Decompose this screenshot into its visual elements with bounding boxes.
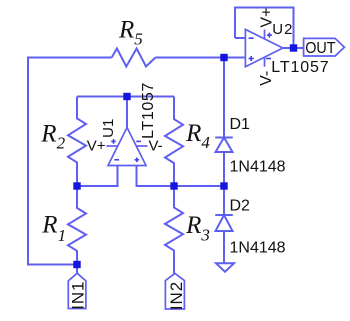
op-amp U1 V+ stub (107, 145, 118, 147)
svg-text:R1: R1 (41, 212, 66, 246)
wire U1 output (126, 97, 128, 128)
wire top node to D1 (223, 58, 225, 138)
node U2 output junction (290, 44, 297, 51)
svg-text:IN1: IN1 (68, 281, 87, 310)
diode D1 (215, 138, 233, 187)
svg-text:R5: R5 (118, 16, 143, 48)
U1 plus input marker (135, 158, 140, 163)
svg-text:R2: R2 (40, 121, 65, 153)
svg-text:V+: V+ (87, 138, 106, 155)
pin markers U1 (111, 33, 272, 163)
diode D2 (215, 186, 233, 263)
svg-text:LT1057: LT1057 (271, 59, 329, 76)
svg-text:R3: R3 (185, 212, 210, 244)
node D1/D2 junction (220, 182, 227, 189)
node R4/R3/U1+ junction (170, 182, 177, 189)
flag OUT (304, 38, 345, 56)
U2 V+ plus marker (267, 33, 272, 38)
op-amp U2 V+ stub (264, 30, 266, 39)
U2 plus input marker (249, 56, 254, 61)
resistor R5 (112, 49, 156, 67)
U2 minus input marker (249, 37, 254, 39)
op-amp U1 V- stub (137, 145, 148, 147)
svg-text:V+: V+ (258, 8, 275, 28)
svg-text:1N4148: 1N4148 (230, 159, 286, 176)
op-amp U2 inverting input stub (235, 37, 245, 39)
wire mid rail left (77, 166, 118, 187)
op-amp U2 V- stub (264, 57, 266, 66)
svg-text:V-: V- (149, 138, 163, 155)
svg-text:U1: U1 (100, 119, 117, 138)
U1 V- minus marker (136, 140, 141, 142)
flag IN1 (68, 273, 86, 308)
svg-text:IN2: IN2 (167, 281, 186, 310)
wire IN1 stub (76, 265, 78, 274)
svg-text:D2: D2 (230, 197, 251, 214)
svg-text:R4: R4 (185, 120, 210, 152)
svg-text:OUT: OUT (305, 40, 335, 58)
op-amp U2 triangle (245, 29, 282, 66)
resistor R3 (165, 186, 183, 273)
node R5/D1/U2+ junction (220, 54, 227, 61)
ground (216, 263, 234, 271)
svg-text:LT1057: LT1057 (140, 82, 157, 139)
svg-text:V-: V- (258, 71, 275, 86)
wire R5 to U2 input (155, 57, 245, 59)
resistor R4 (165, 97, 183, 187)
wire U2 feedback (235, 8, 294, 49)
svg-text:U2: U2 (272, 21, 293, 38)
node R2/R1/U1- junction (73, 182, 80, 189)
U1 minus input marker (114, 159, 119, 161)
wire mid rail right (137, 166, 225, 187)
U1 V+ plus marker (111, 139, 116, 144)
resistor R1 (68, 186, 86, 265)
node U1 output junction (123, 93, 130, 100)
svg-text:1N4148: 1N4148 (230, 240, 286, 257)
U2 V- minus marker (266, 58, 271, 60)
svg-text:D1: D1 (230, 116, 251, 133)
wire left bus (28, 58, 112, 265)
resistor R2 (68, 97, 86, 187)
wire top rail (77, 96, 174, 98)
node IN1 junction (73, 261, 80, 268)
flag IN2 (165, 273, 184, 309)
junction squares (73, 44, 297, 268)
wire U2 output (283, 47, 304, 49)
op-amp U1 triangle (108, 128, 146, 166)
